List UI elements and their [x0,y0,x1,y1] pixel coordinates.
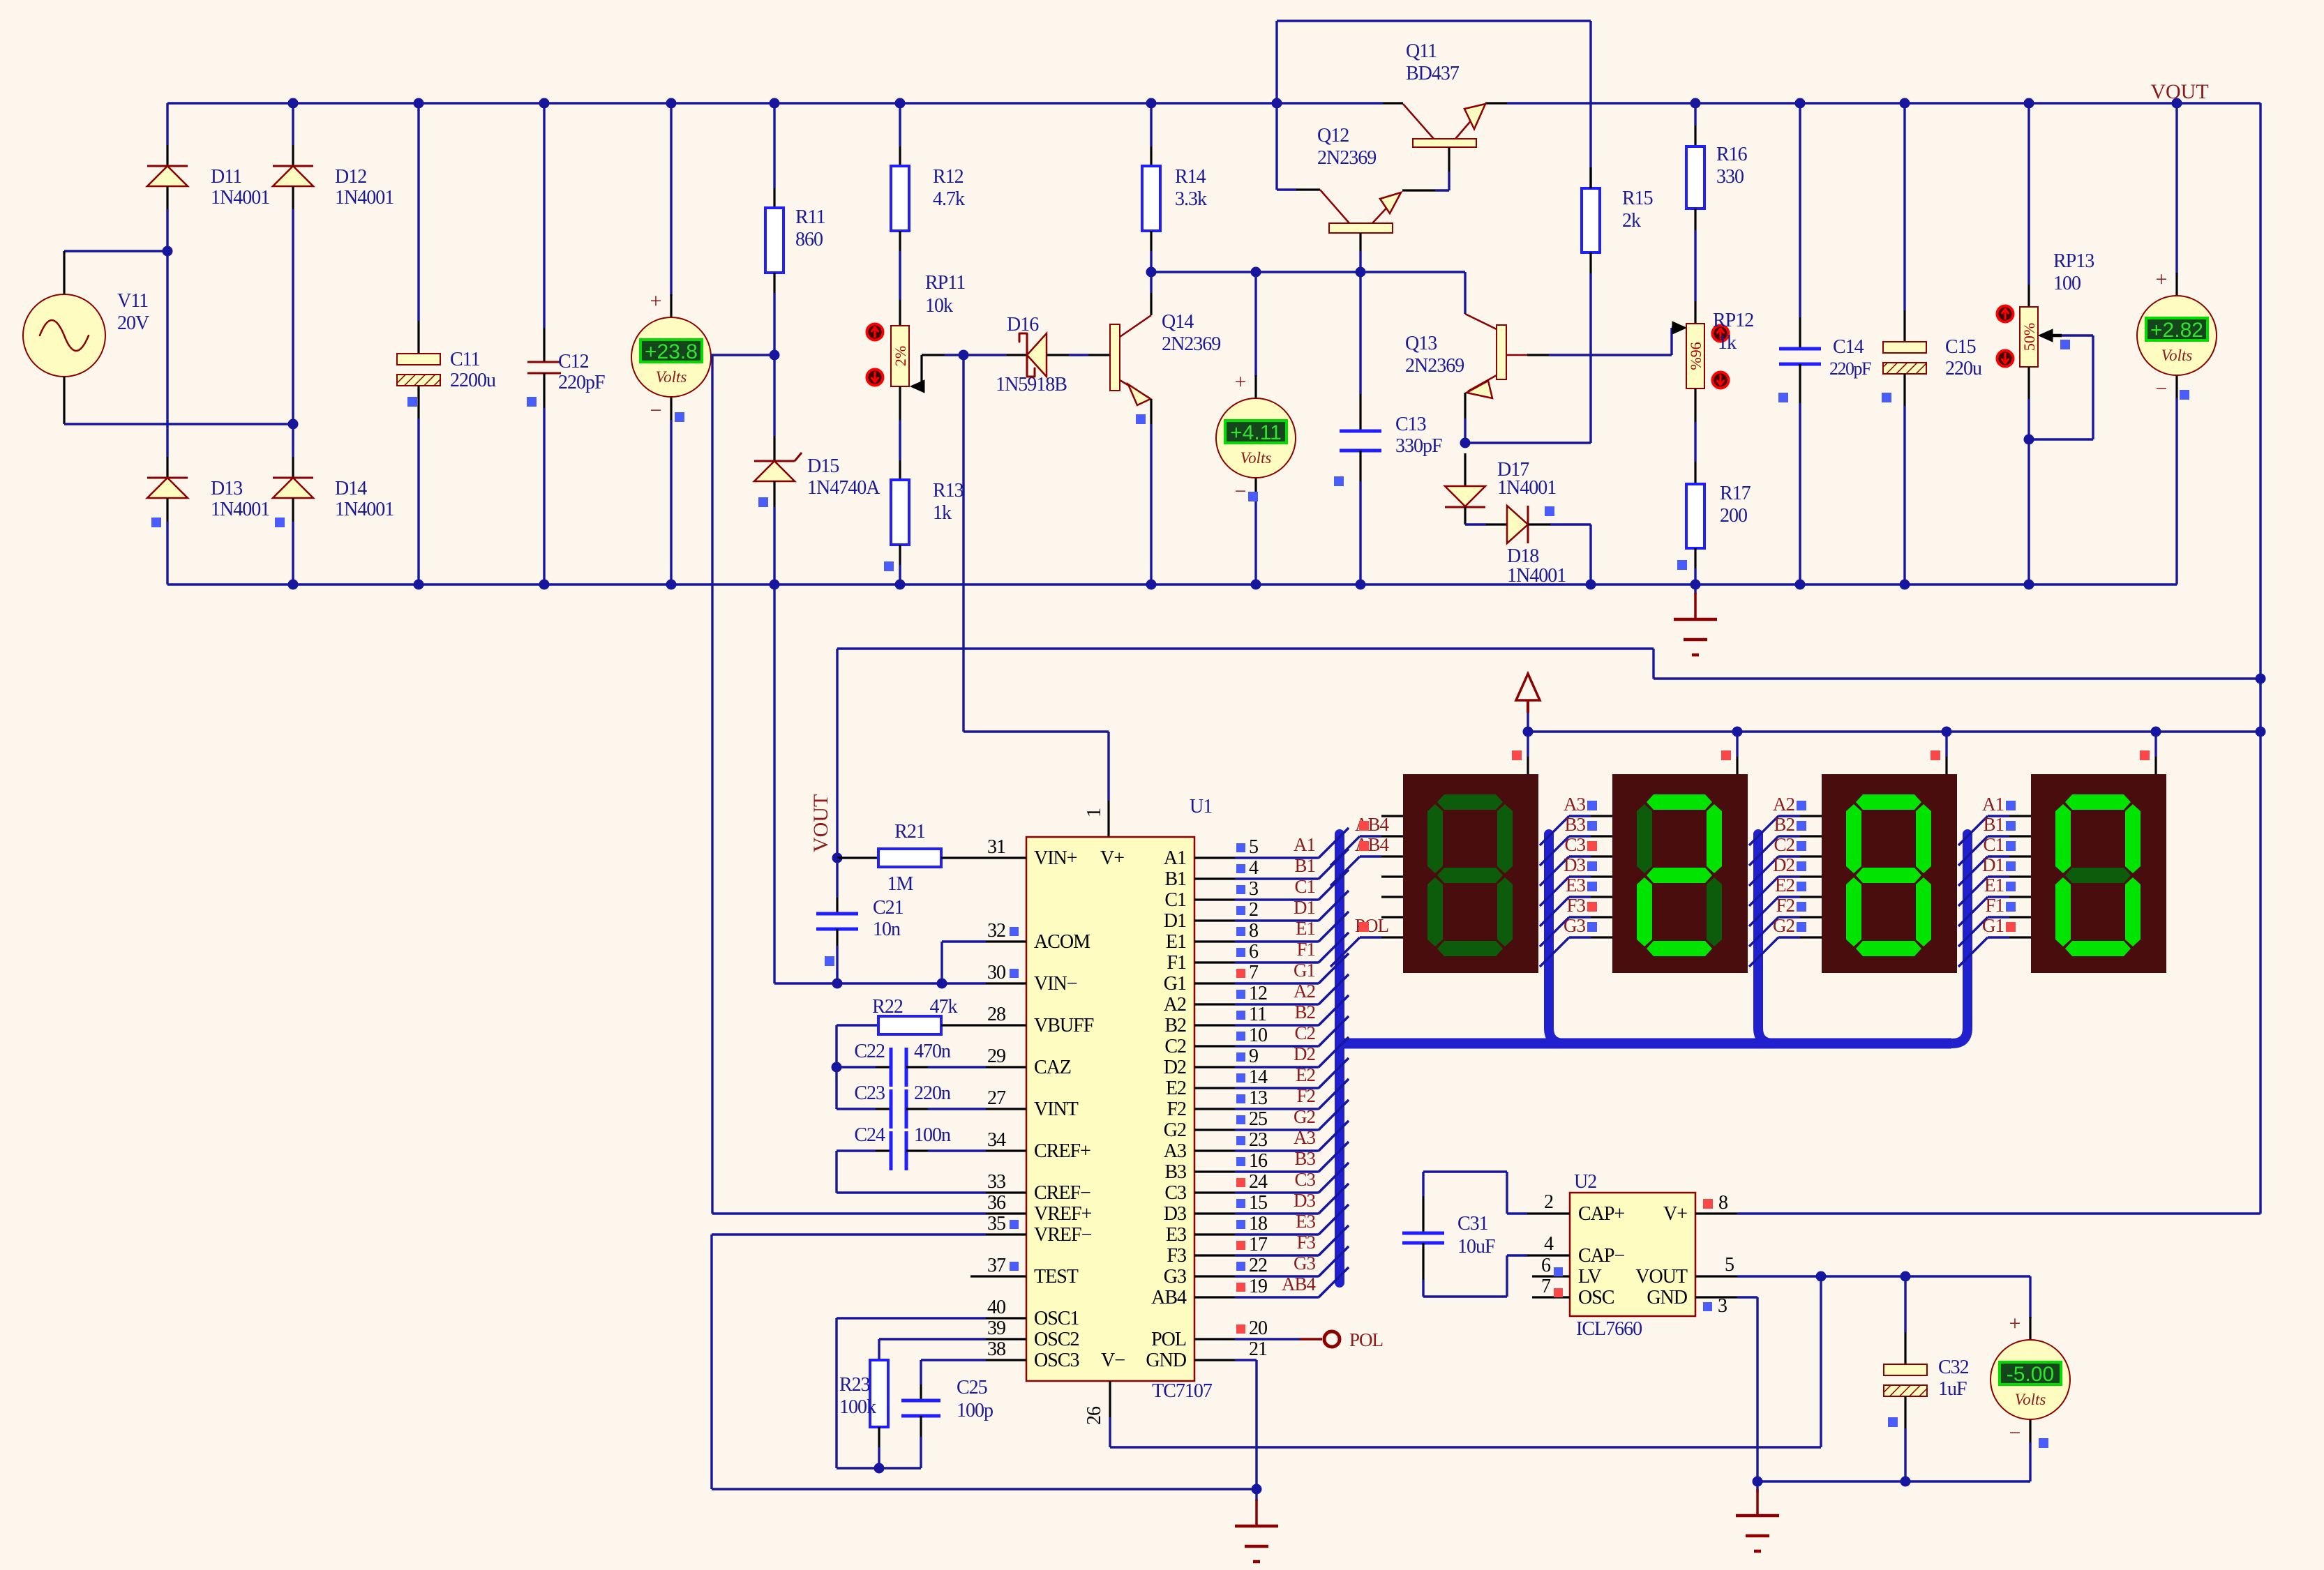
svg-text:R23: R23 [839,1374,870,1396]
svg-text:R15: R15 [1622,188,1653,209]
svg-text:G1: G1 [1164,973,1186,995]
svg-text:C24: C24 [854,1124,885,1146]
svg-text:2: 2 [1544,1191,1553,1213]
svg-text:220n: 220n [914,1082,951,1104]
svg-text:3.3k: 3.3k [1175,188,1207,210]
svg-text:34: 34 [987,1129,1006,1151]
svg-text:1k: 1k [1718,332,1737,354]
svg-text:C12: C12 [558,351,589,372]
svg-text:C23: C23 [854,1082,885,1104]
svg-text:CAP+: CAP+ [1578,1203,1624,1225]
svg-text:+: + [1235,370,1247,393]
svg-text:−: − [2156,377,2168,400]
svg-text:B1: B1 [1164,868,1186,890]
svg-text:19: 19 [1249,1276,1267,1297]
svg-text:10: 10 [1249,1025,1267,1046]
svg-text:OSC3: OSC3 [1034,1350,1079,1371]
svg-text:35: 35 [987,1213,1005,1235]
svg-text:AB4: AB4 [1151,1287,1187,1308]
svg-text:2%: 2% [892,346,909,366]
svg-text:VOUT: VOUT [2150,80,2208,103]
svg-text:C32: C32 [1938,1357,1969,1378]
svg-text:200: 200 [1720,505,1747,527]
svg-text:4.7k: 4.7k [933,188,965,210]
svg-text:1N5918B: 1N5918B [996,374,1067,395]
svg-text:CREF+: CREF+ [1034,1140,1090,1162]
svg-text:1: 1 [1084,808,1105,817]
svg-text:A1: A1 [1982,794,2004,815]
svg-text:3: 3 [1718,1295,1727,1317]
svg-text:4: 4 [1249,857,1259,879]
svg-text:OSC2: OSC2 [1034,1329,1079,1350]
svg-text:26: 26 [1084,1406,1105,1425]
svg-text:25: 25 [1249,1108,1267,1130]
svg-text:E2: E2 [1166,1078,1186,1099]
svg-text:17: 17 [1249,1234,1268,1255]
svg-text:VBUFF: VBUFF [1034,1015,1094,1036]
svg-text:VREF−: VREF− [1034,1224,1092,1246]
svg-text:6: 6 [1541,1255,1551,1276]
svg-text:A3: A3 [1564,794,1585,815]
svg-text:B3: B3 [1564,814,1585,835]
svg-text:1k: 1k [933,502,952,524]
svg-text:100p: 100p [957,1400,993,1421]
svg-text:33: 33 [987,1171,1005,1193]
svg-text:F2: F2 [1167,1099,1186,1120]
svg-text:860: 860 [795,229,823,250]
svg-text:D3: D3 [1564,854,1585,875]
svg-text:-5.00: -5.00 [2007,1363,2054,1386]
svg-text:C1: C1 [1294,876,1315,897]
svg-text:B2: B2 [1164,1015,1186,1036]
svg-text:B2: B2 [1294,1002,1315,1022]
svg-text:2200u: 2200u [450,370,496,391]
svg-text:9: 9 [1249,1046,1258,1067]
svg-text:D2: D2 [1164,1057,1186,1078]
svg-text:3: 3 [1249,878,1258,900]
svg-text:30: 30 [987,962,1005,983]
svg-text:VIN−: VIN− [1034,973,1077,995]
svg-text:V−: V− [1101,1350,1125,1371]
svg-text:E1: E1 [1984,875,2004,896]
svg-text:G3: G3 [1564,915,1585,936]
svg-text:RP11: RP11 [925,272,965,294]
svg-text:G2: G2 [1773,915,1794,936]
svg-text:10n: 10n [873,919,901,940]
svg-text:27: 27 [987,1087,1006,1109]
svg-text:G2: G2 [1294,1106,1315,1127]
svg-text:+4.11: +4.11 [1230,421,1282,444]
svg-text:220pF: 220pF [1829,358,1871,379]
svg-text:RP12: RP12 [1713,310,1753,331]
svg-text:OSC1: OSC1 [1034,1308,1079,1329]
svg-text:20: 20 [1249,1318,1267,1339]
svg-text:R11: R11 [795,206,825,228]
svg-text:C3: C3 [1294,1169,1315,1190]
svg-text:6: 6 [1249,941,1259,963]
svg-text:C25: C25 [957,1377,987,1398]
svg-text:D16: D16 [1007,314,1039,335]
svg-text:R12: R12 [933,166,964,188]
svg-text:39: 39 [987,1318,1005,1339]
svg-text:4: 4 [1544,1233,1554,1255]
svg-text:24: 24 [1249,1171,1268,1193]
svg-text:11: 11 [1249,1004,1266,1025]
svg-text:37: 37 [987,1255,1006,1276]
svg-text:+: + [2009,1312,2021,1335]
svg-text:12: 12 [1249,983,1267,1004]
svg-text:D3: D3 [1294,1190,1315,1211]
svg-text:C31: C31 [1457,1213,1488,1235]
svg-text:C13: C13 [1395,414,1426,435]
svg-text:Volts: Volts [2015,1391,2046,1408]
svg-text:C15: C15 [1945,336,1976,358]
svg-text:VINT: VINT [1034,1099,1079,1120]
svg-text:470n: 470n [914,1041,951,1062]
svg-text:G2: G2 [1164,1119,1186,1141]
svg-text:V11: V11 [117,290,148,312]
svg-text:7: 7 [1541,1276,1551,1297]
svg-text:1uF: 1uF [1938,1378,1967,1400]
svg-text:8: 8 [1249,920,1258,942]
svg-text:RP13: RP13 [2053,250,2094,272]
svg-text:GND: GND [1146,1350,1186,1371]
svg-text:Q13: Q13 [1405,333,1437,354]
svg-text:−: − [2009,1421,2021,1444]
svg-text:Volts: Volts [656,368,687,386]
svg-text:+2.82: +2.82 [2150,319,2203,342]
svg-text:Volts: Volts [1240,449,1272,467]
svg-text:R14: R14 [1175,166,1206,188]
svg-text:100: 100 [2053,273,2081,294]
svg-text:B3: B3 [1164,1161,1186,1183]
svg-text:220pF: 220pF [558,372,605,393]
svg-text:10k: 10k [925,295,953,317]
svg-text:32: 32 [987,920,1005,942]
svg-text:29: 29 [987,1046,1005,1067]
svg-text:1M: 1M [887,873,914,895]
svg-text:TEST: TEST [1034,1266,1079,1288]
svg-text:220u: 220u [1945,358,1982,379]
svg-text:R16: R16 [1716,144,1748,165]
svg-text:1N4740A: 1N4740A [807,477,880,499]
svg-text:R22: R22 [872,996,903,1018]
svg-text:G1: G1 [1294,960,1315,981]
svg-text:B3: B3 [1294,1148,1315,1169]
svg-text:E2: E2 [1296,1064,1315,1085]
svg-text:C11: C11 [450,349,480,370]
svg-text:31: 31 [987,836,1005,858]
svg-text:23: 23 [1249,1129,1267,1151]
svg-text:2N2369: 2N2369 [1405,355,1464,377]
svg-text:+: + [2156,268,2168,291]
svg-text:F1: F1 [1985,895,2004,916]
svg-text:CAZ: CAZ [1034,1057,1071,1078]
svg-text:%96: %96 [1687,342,1704,370]
svg-text:15: 15 [1249,1192,1267,1214]
svg-text:F1: F1 [1296,939,1315,960]
svg-text:A2: A2 [1164,994,1186,1016]
svg-text:D1: D1 [1982,854,2004,875]
svg-text:E3: E3 [1566,875,1585,896]
svg-text:CAP−: CAP− [1578,1245,1624,1267]
svg-text:38: 38 [987,1338,1005,1360]
svg-text:U1: U1 [1190,796,1212,817]
svg-text:1N4001: 1N4001 [1497,477,1556,499]
svg-text:C1: C1 [1164,889,1186,911]
svg-text:C14: C14 [1833,336,1864,358]
svg-text:ICL7660: ICL7660 [1576,1318,1642,1340]
svg-text:1N4001: 1N4001 [1507,565,1566,587]
svg-text:GND: GND [1647,1287,1687,1308]
svg-text:E2: E2 [1775,875,1794,896]
svg-text:28: 28 [987,1004,1005,1025]
svg-text:18: 18 [1249,1213,1267,1235]
svg-text:B1: B1 [1983,814,2004,835]
svg-text:D1: D1 [1294,897,1315,918]
svg-text:C2: C2 [1164,1036,1186,1057]
svg-text:D14: D14 [335,478,367,499]
svg-text:F2: F2 [1776,895,1794,916]
svg-text:50%: 50% [2021,323,2038,351]
svg-text:Volts: Volts [2161,347,2193,364]
svg-text:8: 8 [1718,1192,1727,1214]
svg-text:36: 36 [987,1192,1006,1214]
svg-text:+23.8: +23.8 [645,340,698,363]
svg-text:B2: B2 [1774,814,1794,835]
svg-text:1N4001: 1N4001 [335,499,393,520]
svg-text:CREF−: CREF− [1034,1182,1090,1204]
svg-text:C3: C3 [1164,1182,1186,1204]
svg-text:A3: A3 [1294,1127,1315,1148]
svg-text:A2: A2 [1294,981,1315,1002]
svg-text:F3: F3 [1566,895,1585,916]
svg-text:5: 5 [1725,1254,1734,1276]
svg-text:D2: D2 [1294,1043,1315,1064]
svg-text:ACOM: ACOM [1034,931,1090,953]
svg-text:C1: C1 [1983,834,2004,855]
svg-text:VOUT: VOUT [1635,1266,1688,1288]
svg-text:U2: U2 [1574,1171,1596,1193]
svg-text:VREF+: VREF+ [1034,1203,1092,1225]
svg-text:A1: A1 [1164,847,1186,869]
svg-text:1N4001: 1N4001 [211,499,269,520]
svg-text:10uF: 10uF [1457,1236,1495,1258]
svg-text:21: 21 [1249,1338,1267,1360]
svg-text:F3: F3 [1167,1245,1186,1267]
svg-text:E3: E3 [1296,1211,1315,1232]
svg-text:A2: A2 [1773,794,1794,815]
svg-text:−: − [1235,480,1247,503]
svg-text:F3: F3 [1296,1232,1315,1253]
svg-text:F2: F2 [1296,1085,1315,1106]
svg-text:D1: D1 [1164,910,1186,932]
svg-text:1N4001: 1N4001 [335,187,393,209]
svg-text:A3: A3 [1164,1140,1186,1162]
svg-text:BD437: BD437 [1406,63,1460,84]
svg-text:D12: D12 [335,166,366,188]
svg-text:E1: E1 [1296,918,1315,939]
svg-text:Q12: Q12 [1317,125,1349,146]
svg-text:40: 40 [987,1297,1005,1318]
svg-text:OSC: OSC [1578,1287,1614,1308]
svg-text:2N2369: 2N2369 [1317,147,1376,169]
svg-text:5: 5 [1249,836,1258,858]
svg-text:TC7107: TC7107 [1152,1380,1213,1402]
svg-text:C21: C21 [873,897,904,919]
svg-text:AB4: AB4 [1282,1274,1317,1295]
svg-text:C2: C2 [1774,834,1794,855]
svg-text:R13: R13 [933,480,964,501]
svg-text:7: 7 [1249,962,1259,983]
svg-text:D15: D15 [807,455,839,477]
svg-text:100n: 100n [914,1124,951,1146]
svg-text:D13: D13 [211,478,242,499]
svg-text:2N2369: 2N2369 [1162,333,1220,355]
svg-text:VIN+: VIN+ [1034,847,1077,869]
svg-text:C22: C22 [854,1041,885,1062]
svg-text:R21: R21 [894,821,925,843]
svg-text:100k: 100k [839,1396,876,1418]
svg-text:E3: E3 [1166,1224,1186,1246]
svg-text:VOUT: VOUT [809,794,832,852]
svg-text:D11: D11 [211,166,241,188]
svg-text:13: 13 [1249,1087,1267,1109]
svg-text:14: 14 [1249,1066,1268,1088]
svg-text:F1: F1 [1167,952,1186,974]
svg-text:20V: 20V [117,312,149,334]
svg-text:E1: E1 [1166,931,1186,953]
svg-text:G3: G3 [1294,1253,1315,1274]
svg-text:2: 2 [1249,899,1258,921]
svg-text:C3: C3 [1564,834,1585,855]
svg-text:−: − [650,399,662,422]
svg-text:C2: C2 [1294,1022,1315,1043]
svg-text:47k: 47k [930,996,958,1018]
svg-text:B1: B1 [1294,855,1315,876]
svg-text:POL: POL [1151,1329,1186,1350]
svg-text:Q11: Q11 [1406,40,1437,62]
svg-text:1N4001: 1N4001 [211,187,269,209]
svg-text:V+: V+ [1663,1203,1687,1225]
svg-text:22: 22 [1249,1255,1267,1276]
svg-text:LV: LV [1578,1266,1602,1288]
svg-text:G1: G1 [1982,915,2004,936]
svg-text:Q14: Q14 [1162,311,1194,333]
svg-text:16: 16 [1249,1150,1268,1172]
svg-text:V+: V+ [1100,847,1124,869]
svg-text:+: + [650,289,662,312]
svg-text:D3: D3 [1164,1203,1186,1225]
svg-text:D2: D2 [1773,854,1794,875]
svg-text:330pF: 330pF [1395,435,1442,457]
svg-text:D18: D18 [1507,545,1538,567]
svg-text:G3: G3 [1164,1266,1186,1288]
svg-text:R17: R17 [1720,483,1751,504]
svg-text:330: 330 [1716,166,1744,188]
svg-text:A1: A1 [1294,834,1315,855]
svg-text:POL: POL [1349,1329,1383,1350]
svg-text:2k: 2k [1622,210,1641,232]
